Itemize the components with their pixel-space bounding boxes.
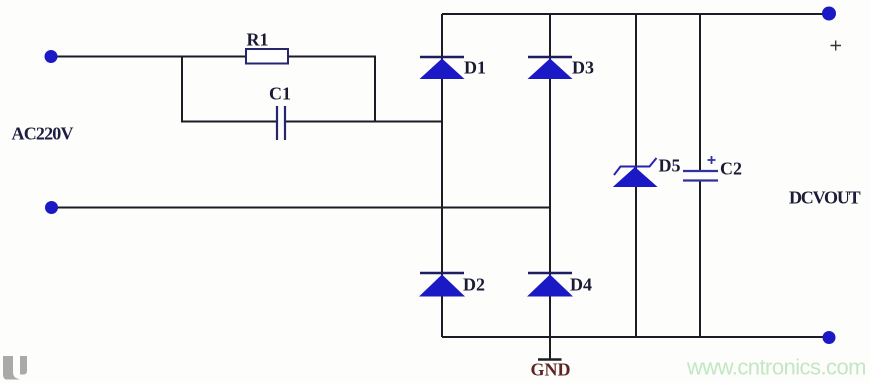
node: AC input bottom terminal [45, 201, 58, 214]
svg-text:AC220V: AC220V [12, 124, 74, 144]
wire: C2 vertical branch upper [699, 14, 701, 171]
diode D2 [419, 273, 465, 297]
node: AC input top terminal [45, 50, 58, 63]
capacitor C2 (polarized) [683, 156, 718, 181]
node: DC output + terminal [822, 7, 836, 21]
label: + polarity mark [831, 41, 842, 51]
wire: C1 right lead to bridge node [284, 121, 443, 123]
svg-text:D1: D1 [464, 58, 486, 78]
wire: D1/D2 vertical branch [441, 14, 443, 337]
svg-text:D2: D2 [463, 275, 485, 295]
wire: left junction vertical (R1/C1 parallel, left side) [181, 57, 183, 123]
wire: right junction vertical (R1/C1 parallel, right side) [374, 57, 376, 123]
wire: top bus [442, 13, 829, 15]
svg-text:www.cntronics.com: www.cntronics.com [686, 355, 866, 380]
logo u (gray, bottom-left) [3, 356, 27, 380]
capacitor C1 plates [277, 106, 285, 140]
wire: C2 vertical branch lower [699, 181, 701, 337]
wire: D3/D4 vertical branch [549, 14, 551, 337]
wire: top input from terminal to R1 [51, 56, 247, 58]
wire: bottom bus [442, 336, 829, 338]
svg-text:C2: C2 [720, 159, 742, 179]
svg-text:D5: D5 [659, 156, 681, 176]
svg-text:D4: D4 [570, 275, 592, 295]
ground bar [538, 358, 562, 361]
svg-text:GND: GND [531, 360, 571, 380]
wire: GND stem [549, 337, 551, 359]
wire: bottom AC input to D3/D4 branch [52, 207, 552, 209]
wire: D5 vertical branch [635, 14, 637, 337]
wire: R1 right to right junction [287, 56, 376, 58]
diode D1 [420, 57, 465, 79]
wire: C1 left lead [181, 121, 276, 123]
svg-text:C1: C1 [269, 84, 291, 104]
node: DC output - terminal [823, 331, 836, 344]
svg-text:DCVOUT: DCVOUT [789, 188, 861, 208]
diode D4 [527, 273, 573, 297]
svg-text:R1: R1 [247, 30, 269, 50]
resistor R1 [246, 49, 288, 64]
zener diode D5 [613, 158, 658, 187]
diode D3 [528, 57, 573, 79]
svg-text:D3: D3 [572, 58, 594, 78]
